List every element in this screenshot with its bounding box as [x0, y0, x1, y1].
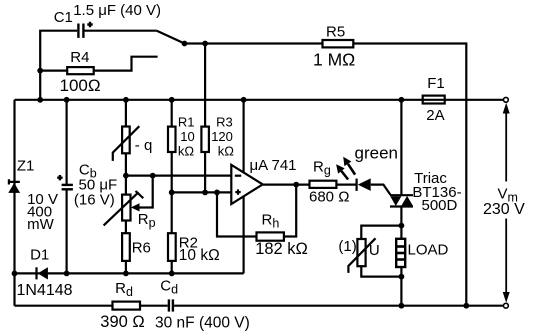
load element stripes: [396, 247, 405, 260]
switch S1 blade: [157, 31, 185, 44]
label (1): [338, 238, 356, 255]
svg-text:500D: 500D: [422, 197, 458, 214]
svg-text:Z1: Z1: [17, 157, 35, 174]
wire: Rg to LED: [336, 184, 356, 186]
svg-text:kΩ: kΩ: [218, 144, 235, 159]
svg-text:120: 120: [211, 129, 233, 144]
svg-text:1 MΩ: 1 MΩ: [313, 50, 355, 70]
measurement arrow Vm top head: [503, 103, 510, 114]
wire: +10V bus: [15, 99, 504, 101]
node: lower rail at R2: [169, 271, 175, 277]
node on bus at R1: [169, 97, 175, 103]
resistor R1: [168, 127, 176, 152]
wire: Cd to bottom terminal: [174, 305, 504, 307]
thermistor NTC stroke: [113, 126, 140, 161]
terminal: bottom mains terminal: [504, 303, 509, 308]
thermistor (-q) top lead: [125, 100, 127, 127]
svg-text:- q: - q: [135, 137, 153, 154]
svg-text:F1: F1: [427, 75, 445, 92]
label Rd: [115, 280, 133, 299]
label uA 741: [250, 157, 297, 174]
svg-text:mW: mW: [27, 216, 54, 233]
node on bus at Cb: [64, 97, 70, 103]
label Cb: [79, 162, 97, 181]
LED cathode bar: [356, 179, 358, 191]
label F1: [427, 75, 445, 92]
capacitor Cd: [169, 299, 173, 311]
label C1: [54, 9, 73, 26]
resistor R2 top lead: [171, 192, 173, 233]
wire: C1 right lead: [85, 30, 157, 32]
node: bottom wire at triac column: [399, 303, 405, 309]
resistor Rg: [310, 181, 337, 188]
node: lower rail at R6: [123, 271, 129, 277]
value label 30 nF (400 V): [155, 314, 250, 331]
node: wiper branch junction: [150, 173, 156, 179]
node: varistor branch top junction: [399, 223, 405, 229]
svg-text:230 V: 230 V: [483, 201, 525, 218]
terminal: top mains terminal: [504, 97, 509, 102]
svg-text:μA 741: μA 741: [250, 157, 297, 174]
varistor U stroke: [348, 238, 375, 273]
resistor R1 top lead: [171, 100, 173, 127]
svg-text:182 kΩ: 182 kΩ: [255, 240, 308, 258]
wire: inverting input net: [126, 175, 231, 177]
svg-text:kΩ: kΩ: [178, 144, 195, 159]
fuse F1: [423, 96, 445, 104]
potentiometer Rp adjustment T-bar: [136, 191, 144, 198]
wire: op-amp output to Rg: [263, 184, 310, 186]
label R6: [132, 239, 151, 256]
wire: varistor branch bottom: [361, 266, 401, 276]
wire: Cb top lead: [65, 100, 67, 184]
node: bottom wire at right rail: [463, 303, 469, 309]
value label 680 Ohm: [309, 188, 349, 205]
value label 1.5 uF (40 V): [73, 2, 161, 19]
svg-text:R4: R4: [70, 49, 89, 66]
capacitor Cb: [62, 185, 73, 189]
node on bus at op-amp supply: [241, 97, 247, 103]
svg-text:2A: 2A: [426, 107, 444, 124]
measurement arrow Vm shaft lower segment: [505, 219, 507, 299]
value label 182 kOhm: [255, 240, 308, 258]
label R2 10 kOhm: [179, 235, 220, 264]
svg-text:R5: R5: [326, 23, 345, 40]
triac bottom bar: [390, 205, 413, 207]
svg-text:1N4148: 1N4148: [17, 282, 73, 299]
node: lower rail at Cb: [64, 271, 70, 277]
label Rh: [262, 212, 280, 231]
resistor R4: [67, 67, 94, 74]
resistor Rd: [113, 302, 141, 310]
label LOAD: [408, 241, 449, 258]
label U: [369, 242, 380, 259]
value label 50 uF (16 V): [74, 177, 117, 209]
wire: Rh left lead from non-inverting node: [217, 192, 257, 236]
node on bus at triac column: [399, 97, 405, 103]
label 230 V: [483, 201, 525, 218]
wire: LED to triac gate: [371, 185, 391, 195]
value label 1N4148: [17, 282, 73, 299]
label R3 120 kOhm: [211, 115, 234, 159]
svg-text:C1: C1: [54, 9, 73, 26]
zener diode Z1: [9, 179, 20, 184]
polarity mark of Cb: [57, 175, 62, 180]
wire: non-inverting input net: [172, 191, 232, 193]
potentiometer Rp bottom lead: [125, 221, 127, 234]
node: lower rail at left rail: [12, 271, 18, 277]
potentiometer Rp wiper arrowhead: [131, 203, 140, 211]
node: R1/R2 junction: [169, 190, 175, 196]
load element body: [396, 239, 405, 267]
potentiometer Rp wiper wire: [139, 176, 153, 208]
svg-text:100Ω: 100Ω: [60, 76, 101, 95]
node: R4 junction on C1 vertical: [37, 68, 43, 74]
value label 390 Ohm: [100, 313, 144, 331]
potentiometer Rp body: [122, 195, 130, 221]
svg-text:R1: R1: [178, 115, 195, 130]
diode D1 cathode bar: [35, 267, 37, 279]
resistor R2: [168, 233, 176, 261]
triac top bar: [390, 194, 413, 196]
wire: op-amp V+ supply from bus: [243, 100, 245, 173]
wire: switch pole to R5: [185, 42, 323, 44]
potentiometer Rp adjustment stroke: [104, 192, 139, 225]
op-amp U1 body: [231, 165, 262, 204]
polarity mark of C1: [87, 22, 92, 27]
svg-text:U: U: [369, 242, 380, 259]
resistor R3: [201, 127, 209, 152]
value label 10 V 400 mW: [27, 191, 58, 233]
svg-text:green: green: [355, 144, 398, 163]
resistor R6 bottom lead: [125, 261, 127, 274]
LED triangle: [358, 178, 371, 191]
label Cd: [160, 277, 178, 296]
triac up triangle: [401, 196, 412, 206]
svg-text:D1: D1: [30, 246, 49, 263]
node: varistor branch bottom junction: [399, 274, 405, 280]
wire: varistor branch top: [361, 226, 401, 239]
svg-text:R6: R6: [132, 239, 151, 256]
label Vm: [498, 186, 518, 205]
triac down triangle: [390, 196, 401, 206]
measurement arrow Vm shaft upper segment: [505, 108, 507, 182]
measurement arrow Vm bottom head: [503, 292, 510, 303]
svg-text:1.5 μF (40 V): 1.5 μF (40 V): [73, 2, 161, 19]
wire: triac MT1 down to bottom wire: [400, 207, 402, 306]
node: thermistor/Rp junction: [123, 173, 129, 179]
capacitor C1: [78, 24, 83, 38]
wire: switch node down to R3 (crosses bus): [204, 44, 206, 127]
svg-text:R3: R3: [216, 115, 233, 130]
resistor R5: [323, 40, 354, 47]
LED light arrow 1: [348, 164, 355, 175]
label Rg: [313, 159, 331, 178]
resistor R3 bottom lead: [204, 152, 206, 192]
wire: C1 left lead and vertical to bus: [40, 31, 77, 100]
svg-text:30 nF (400 V): 30 nF (400 V): [155, 314, 250, 331]
value label 2A: [426, 107, 444, 124]
value label 100 Ohm: [60, 76, 101, 95]
svg-text:10 kΩ: 10 kΩ: [179, 247, 220, 264]
op-amp inverting input mark: [235, 175, 241, 177]
wire: bottom neutral wire left of Rd: [15, 305, 113, 307]
node: output/feedback junction: [293, 182, 299, 188]
resistor R1 bottom lead: [171, 152, 173, 192]
varistor U body: [357, 239, 365, 266]
wire: Rh right lead up to output: [284, 185, 296, 237]
op-amp non-inverting input mark: [235, 189, 240, 194]
svg-text:10: 10: [180, 129, 194, 144]
wire: Cb bottom lead: [65, 190, 67, 273]
wire: lower rail: [15, 272, 244, 274]
resistor R6: [122, 233, 130, 261]
label -q: [135, 137, 153, 154]
label Triac BT136-500D: [412, 170, 461, 214]
wire: R4 left lead: [40, 69, 67, 71]
wire: triac MT2 to bus: [400, 100, 402, 195]
svg-text:LOAD: LOAD: [408, 241, 449, 258]
label Z1: [17, 157, 35, 174]
wire: Rd to Cd: [140, 305, 168, 307]
value label 1 MOhm: [313, 50, 355, 70]
resistor Rh: [257, 232, 284, 240]
label D1: [30, 246, 49, 263]
node: Rh branch junction: [214, 190, 220, 196]
label R1 10 kOhm: [178, 115, 195, 159]
potentiometer Rp top lead: [125, 176, 127, 195]
label Rp: [138, 211, 156, 230]
svg-text:(16 V): (16 V): [74, 192, 115, 209]
thermistor body: [122, 127, 130, 154]
switch pole dot: [182, 41, 188, 47]
node on bus at thermistor column: [123, 97, 129, 103]
svg-text:390 Ω: 390 Ω: [100, 313, 144, 331]
node on bus at C1/R4 branch: [37, 97, 43, 103]
svg-text:680 Ω: 680 Ω: [309, 188, 349, 205]
svg-text:(1): (1): [338, 238, 356, 255]
wire: R5 to right rail, down to bottom wire: [353, 44, 466, 306]
label R5: [326, 23, 345, 40]
LED light arrow 2: [341, 171, 348, 180]
wire: R4 right lead to open switch contact: [94, 57, 158, 71]
resistor R2 bottom lead: [171, 261, 173, 274]
wire: left rail: [13, 100, 15, 306]
thermistor bottom lead: [125, 153, 127, 175]
diode D1 triangle: [38, 267, 48, 279]
label green: [355, 144, 398, 163]
label R4: [70, 49, 89, 66]
node: R3 bottom junction: [202, 190, 208, 196]
wire: op-amp V- supply to lower rail: [243, 196, 245, 273]
node: top junction to R3: [202, 41, 208, 47]
